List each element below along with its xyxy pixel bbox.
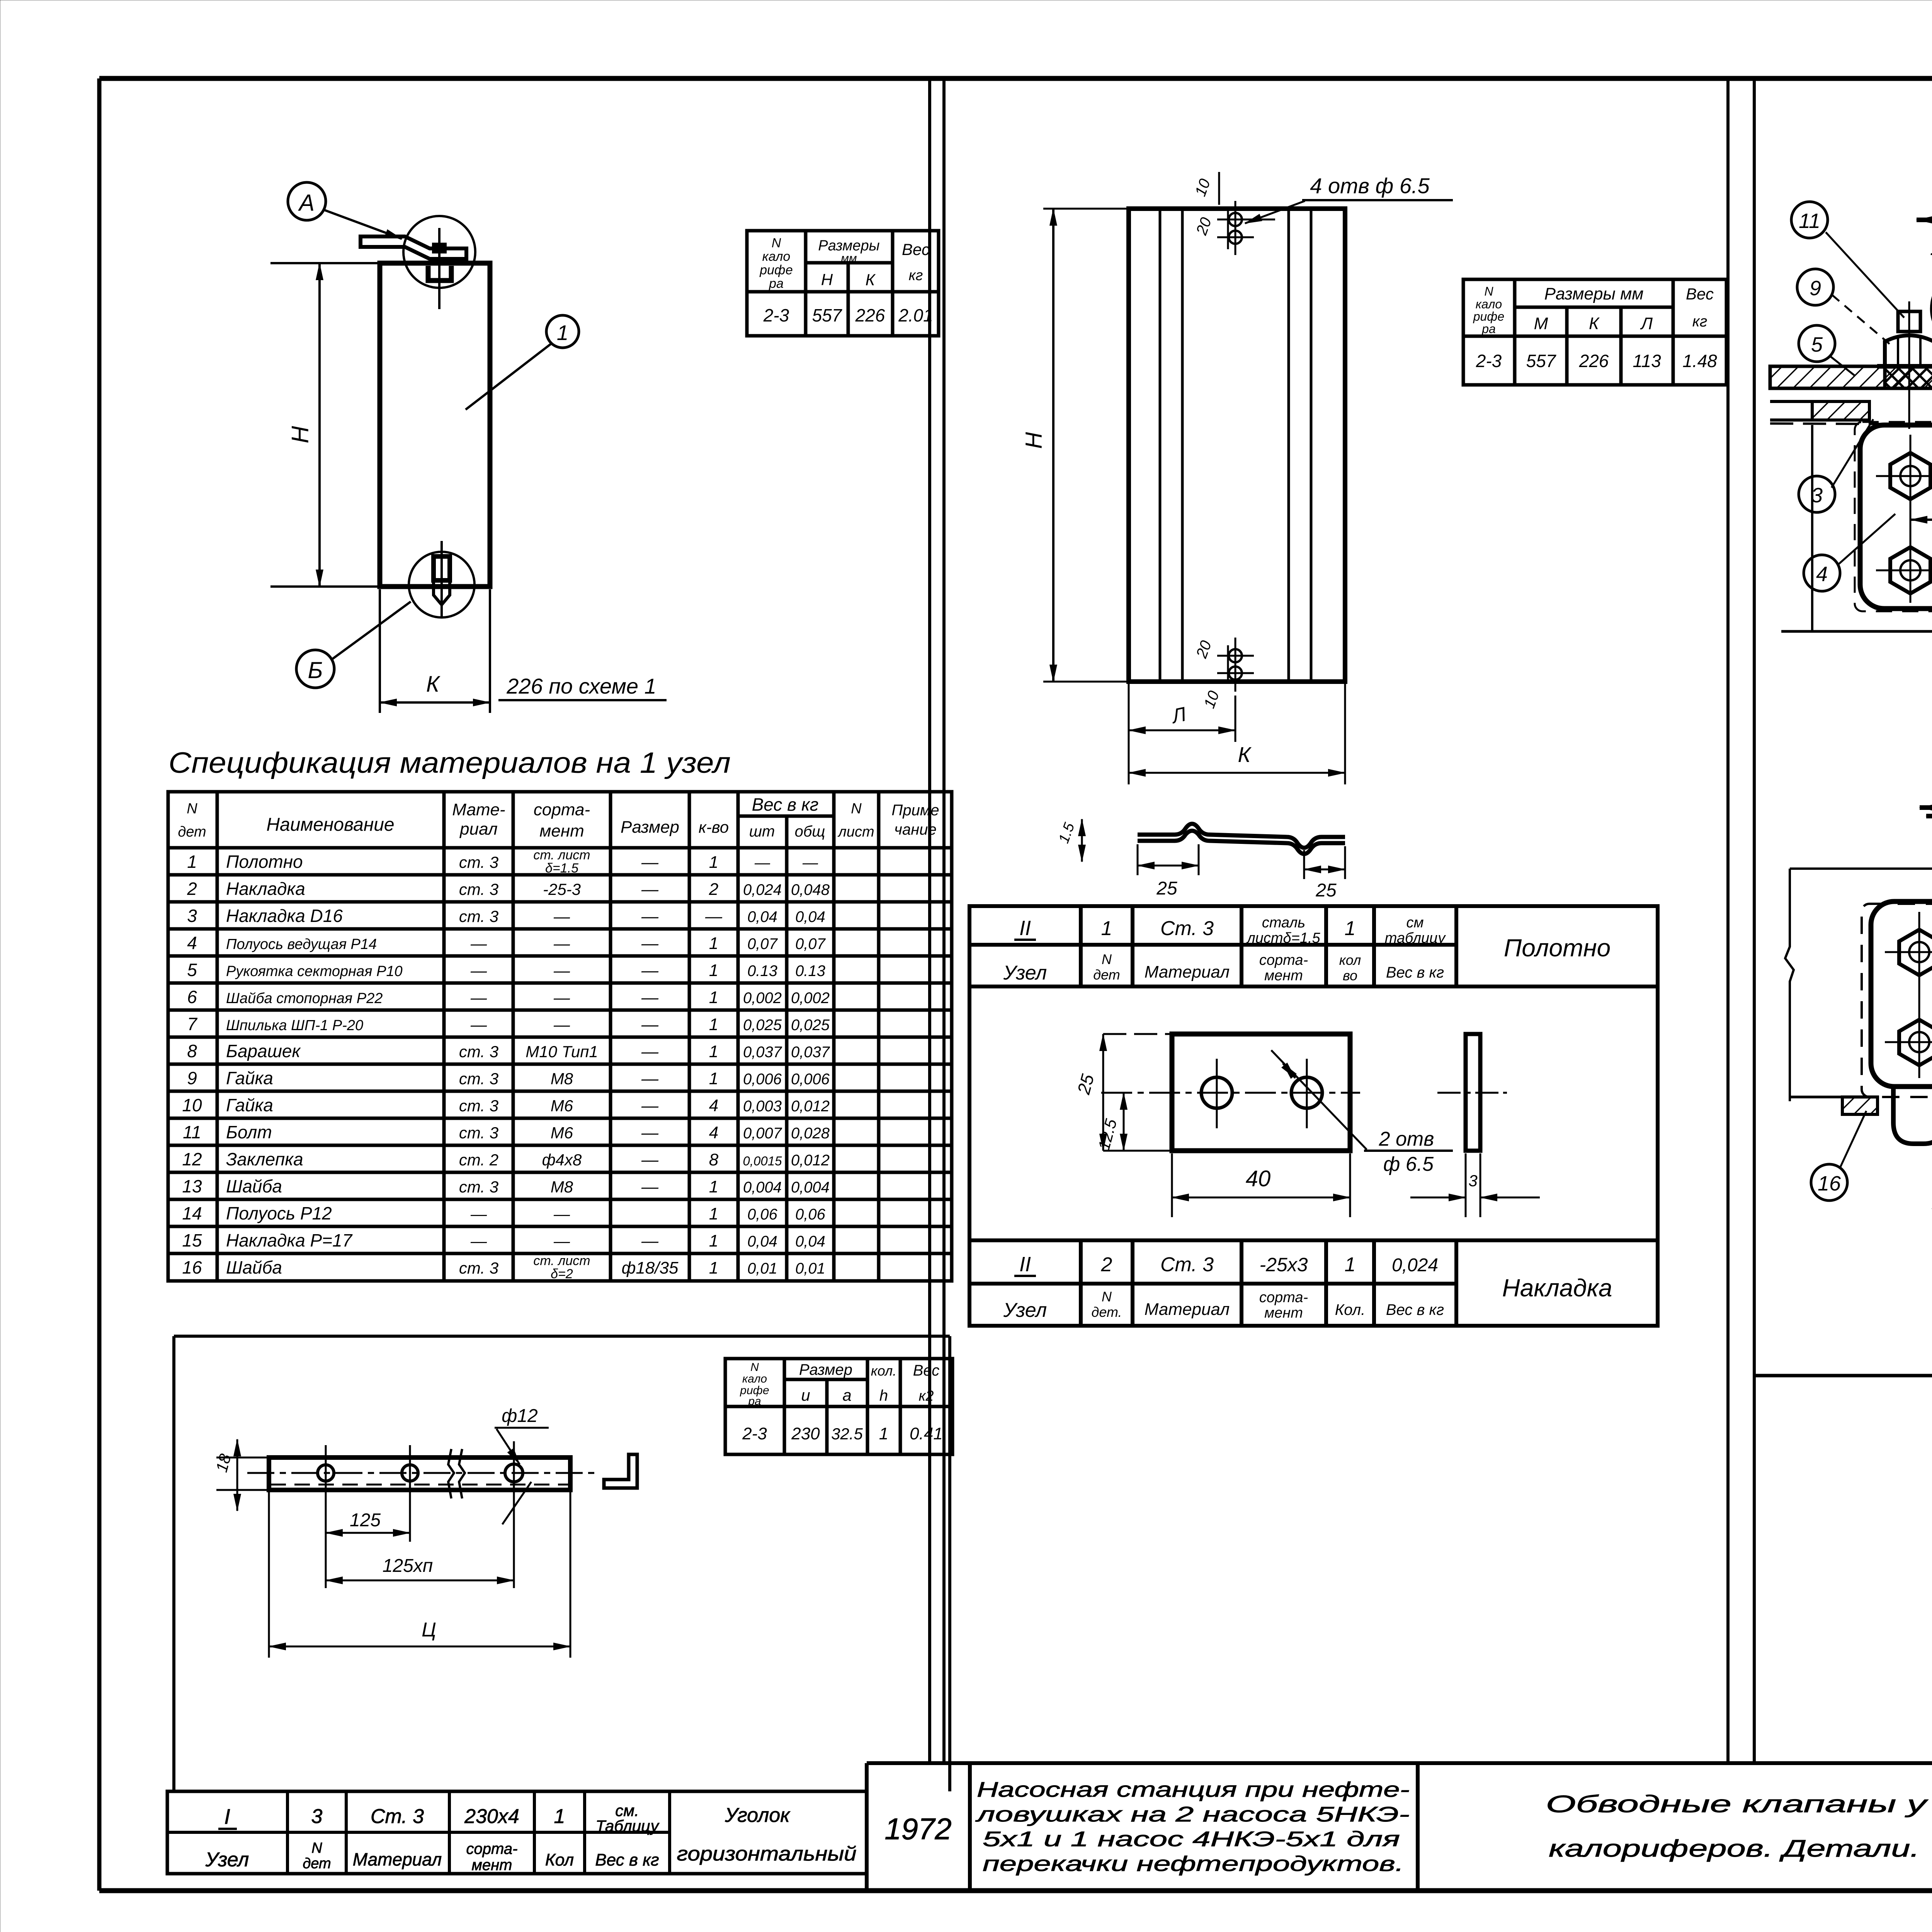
svg-text:Накладка: Накладка — [1502, 1274, 1612, 1302]
svg-text:Ц: Ц — [422, 1619, 436, 1641]
svg-text:0,012: 0,012 — [791, 1098, 830, 1115]
svg-text:0,037: 0,037 — [743, 1044, 782, 1061]
svg-text:см: см — [1406, 915, 1423, 931]
svg-text:ра: ра — [769, 276, 784, 291]
svg-text:кало: кало — [762, 249, 791, 264]
svg-text:0,04: 0,04 — [795, 1233, 825, 1250]
svg-text:5: 5 — [187, 960, 197, 980]
svg-text:8: 8 — [187, 1041, 197, 1061]
svg-text:1: 1 — [554, 1805, 565, 1828]
svg-text:10: 10 — [182, 1095, 202, 1115]
svg-text:М10 Тип1: М10 Тип1 — [526, 1043, 598, 1061]
svg-text:дет: дет — [303, 1855, 331, 1872]
svg-text:0,004: 0,004 — [743, 1179, 782, 1196]
svg-text:-25х3: -25х3 — [1259, 1254, 1308, 1276]
svg-text:ф12: ф12 — [502, 1406, 538, 1426]
svg-text:2: 2 — [1101, 1253, 1112, 1276]
svg-text:Накладка: Накладка — [226, 879, 305, 899]
svg-text:ст. 3: ст. 3 — [459, 907, 498, 925]
svg-text:2.01: 2.01 — [898, 305, 933, 325]
svg-text:к-во: к-во — [699, 818, 729, 836]
svg-text:Размеры: Размеры — [818, 238, 879, 254]
svg-text:-25-3: -25-3 — [543, 880, 581, 898]
svg-text:—: — — [470, 1232, 487, 1250]
svg-text:0,04: 0,04 — [747, 1233, 777, 1250]
svg-text:—: — — [641, 1150, 659, 1169]
svg-text:0,004: 0,004 — [791, 1179, 830, 1196]
svg-text:Заклепка: Заклепка — [226, 1149, 303, 1169]
svg-text:—: — — [641, 880, 659, 899]
svg-text:2-3: 2-3 — [742, 1424, 767, 1443]
svg-text:0,01: 0,01 — [795, 1260, 825, 1277]
svg-text:кол: кол — [1339, 952, 1361, 968]
svg-text:4 отв ф 6.5: 4 отв ф 6.5 — [1310, 173, 1430, 198]
svg-text:15: 15 — [182, 1230, 202, 1250]
svg-text:Спецификация материалов на: Спецификация материалов на 1 узел — [168, 747, 731, 779]
svg-text:Гайка: Гайка — [226, 1068, 273, 1088]
svg-text:0,048: 0,048 — [791, 881, 830, 898]
svg-text:шт: шт — [749, 823, 775, 840]
svg-text:мент: мент — [1264, 1305, 1303, 1321]
svg-text:6: 6 — [187, 987, 197, 1007]
svg-text:ст. лист: ст. лист — [533, 848, 590, 862]
svg-text:ст. 3: ст. 3 — [459, 853, 498, 871]
svg-text:0,037: 0,037 — [791, 1044, 830, 1061]
svg-text:Кол: Кол — [545, 1850, 574, 1869]
svg-text:Ст. 3: Ст. 3 — [1160, 1253, 1214, 1276]
svg-text:листδ=1.5: листδ=1.5 — [1246, 930, 1320, 946]
svg-text:Полуось ведущая Р14: Полуось ведущая Р14 — [226, 936, 377, 952]
svg-text:—: — — [802, 854, 818, 871]
svg-text:М6: М6 — [551, 1097, 573, 1115]
svg-text:δ=1.5: δ=1.5 — [545, 861, 578, 876]
svg-text:Вес в кг: Вес в кг — [595, 1850, 659, 1869]
svg-text:Н: Н — [287, 426, 314, 443]
svg-text:12.5: 12.5 — [1095, 1117, 1121, 1152]
svg-text:ст. 3: ст. 3 — [459, 1259, 498, 1277]
svg-text:N: N — [750, 1361, 759, 1374]
svg-text:лист: лист — [837, 824, 874, 840]
svg-text:—: — — [705, 907, 723, 926]
svg-text:Полуось Р12: Полуось Р12 — [226, 1203, 332, 1223]
svg-text:25: 25 — [1156, 878, 1177, 899]
svg-text:Н: Н — [1021, 432, 1047, 449]
svg-text:125: 125 — [350, 1510, 381, 1531]
svg-text:М6: М6 — [551, 1124, 573, 1142]
svg-text:Таблицу: Таблицу — [595, 1817, 660, 1835]
svg-text:4: 4 — [1816, 563, 1828, 586]
svg-text:40: 40 — [1246, 1166, 1271, 1191]
svg-text:Материал: Материал — [353, 1849, 442, 1869]
svg-text:дет: дет — [1093, 967, 1120, 983]
svg-text:сорта-: сорта- — [1259, 1289, 1308, 1306]
svg-text:Гайка: Гайка — [226, 1095, 273, 1115]
svg-text:2: 2 — [709, 880, 718, 899]
svg-text:Накладка D16: Накладка D16 — [226, 906, 343, 926]
svg-text:Вес в кг: Вес в кг — [1386, 1301, 1444, 1318]
svg-text:—: — — [641, 853, 659, 872]
svg-text:10: 10 — [1201, 689, 1223, 711]
svg-text:Шайба стопорная Р22: Шайба стопорная Р22 — [226, 990, 383, 1007]
svg-text:Размер: Размер — [621, 818, 679, 837]
svg-text:ст. 3: ст. 3 — [459, 1070, 498, 1088]
svg-text:К: К — [1589, 314, 1600, 333]
svg-text:2 отв: 2 отв — [1379, 1128, 1434, 1150]
svg-text:1: 1 — [709, 1231, 718, 1250]
svg-text:113: 113 — [1633, 351, 1661, 371]
svg-text:20: 20 — [1193, 215, 1215, 238]
svg-text:Узел: Узел — [1003, 1299, 1047, 1321]
svg-text:1: 1 — [709, 961, 718, 980]
svg-text:—: — — [641, 1177, 659, 1196]
svg-text:Материал: Материал — [1145, 1300, 1230, 1319]
svg-text:дет.: дет. — [1091, 1304, 1122, 1320]
svg-text:—: — — [641, 1096, 659, 1115]
svg-text:0,025: 0,025 — [743, 1017, 782, 1034]
svg-text:1: 1 — [709, 1259, 718, 1277]
svg-text:К: К — [1238, 742, 1252, 767]
svg-text:8: 8 — [709, 1150, 719, 1169]
svg-text:—: — — [641, 907, 659, 926]
svg-text:К: К — [426, 672, 440, 697]
svg-text:230: 230 — [791, 1424, 820, 1443]
svg-text:125хп: 125хп — [383, 1556, 433, 1576]
svg-text:14: 14 — [182, 1203, 202, 1223]
svg-text:0,04: 0,04 — [795, 908, 825, 925]
svg-text:перекачки нефтепродуктов.: перекачки нефтепродуктов. — [983, 1852, 1404, 1876]
svg-text:Насосная станция при нефте-: Насосная станция при нефте- — [977, 1777, 1410, 1801]
svg-text:А: А — [298, 190, 315, 216]
svg-text:кг: кг — [1692, 313, 1708, 330]
svg-text:16: 16 — [1818, 1172, 1841, 1195]
svg-text:ст. 3: ст. 3 — [459, 1124, 498, 1142]
svg-text:9: 9 — [187, 1068, 197, 1088]
svg-text:—: — — [641, 1042, 659, 1061]
svg-text:Л: Л — [1169, 703, 1188, 728]
svg-text:ст. 3: ст. 3 — [459, 1043, 498, 1061]
svg-text:0,007: 0,007 — [743, 1125, 782, 1142]
svg-text:557: 557 — [812, 305, 842, 325]
svg-text:1.48: 1.48 — [1682, 351, 1717, 371]
svg-text:кол.: кол. — [871, 1363, 897, 1379]
svg-text:ст. 3: ст. 3 — [459, 1178, 498, 1196]
svg-text:сталь: сталь — [1262, 915, 1305, 931]
svg-text:—: — — [553, 1205, 570, 1223]
svg-text:ф 6.5: ф 6.5 — [1383, 1153, 1434, 1175]
svg-text:ст. лист: ст. лист — [533, 1253, 590, 1268]
svg-text:II: II — [1019, 1253, 1031, 1276]
svg-text:II: II — [1019, 917, 1031, 940]
svg-text:Полотно: Полотно — [1504, 934, 1611, 962]
svg-text:0,0015: 0,0015 — [743, 1154, 782, 1168]
svg-text:—: — — [553, 934, 570, 952]
svg-text:Барашек: Барашек — [226, 1041, 301, 1061]
svg-text:—: — — [553, 1015, 570, 1034]
svg-text:мент: мент — [472, 1857, 512, 1874]
svg-text:4: 4 — [709, 1123, 718, 1142]
svg-text:9: 9 — [1810, 277, 1821, 300]
svg-text:230х4: 230х4 — [464, 1805, 519, 1828]
svg-text:рифе: рифе — [1473, 310, 1504, 323]
svg-text:Мате-: Мате- — [452, 800, 505, 819]
svg-text:1972: 1972 — [884, 1812, 952, 1846]
svg-text:Размеры мм: Размеры мм — [1544, 284, 1644, 303]
svg-text:К: К — [866, 270, 876, 289]
svg-text:М8: М8 — [551, 1178, 573, 1196]
svg-text:ф4х8: ф4х8 — [542, 1151, 582, 1169]
svg-text:0,003: 0,003 — [743, 1098, 782, 1115]
svg-text:0,07: 0,07 — [747, 935, 778, 952]
svg-text:Рукоятка секторная Р10: Рукоятка секторная Р10 — [226, 963, 403, 980]
svg-text:3: 3 — [311, 1805, 323, 1828]
svg-text:5х1 и 1 насос 4НКЭ-5х1 для: 5х1 и 1 насос 4НКЭ-5х1 для — [983, 1827, 1400, 1851]
svg-text:226: 226 — [1579, 351, 1609, 371]
svg-text:226 по схеме 1: 226 по схеме 1 — [506, 674, 656, 698]
svg-text:ловушках на 2 насоса 5НКЭ-: ловушках на 2 насоса 5НКЭ- — [975, 1802, 1410, 1826]
svg-text:Узел: Узел — [205, 1849, 249, 1871]
svg-text:0,002: 0,002 — [743, 990, 782, 1007]
svg-text:—: — — [470, 988, 487, 1007]
svg-text:Обводные клапаны у: Обводные клапаны у — [1546, 1791, 1929, 1818]
svg-text:—: — — [553, 907, 570, 925]
svg-text:Ст. 3: Ст. 3 — [371, 1805, 424, 1828]
svg-text:32.5: 32.5 — [831, 1425, 863, 1443]
svg-text:0,07: 0,07 — [795, 935, 826, 952]
svg-text:N: N — [187, 801, 197, 817]
svg-text:Материал: Материал — [1145, 963, 1230, 981]
svg-text:риал: риал — [459, 820, 498, 838]
svg-text:5: 5 — [1811, 333, 1823, 356]
svg-text:Размер: Размер — [799, 1361, 852, 1378]
svg-text:0.41: 0.41 — [910, 1424, 943, 1443]
svg-text:М: М — [1534, 314, 1548, 333]
svg-text:3: 3 — [187, 906, 197, 926]
svg-text:20: 20 — [1193, 638, 1215, 661]
svg-text:кг: кг — [909, 267, 923, 284]
svg-text:Вес: Вес — [902, 240, 930, 259]
svg-text:ра: ра — [748, 1395, 761, 1408]
svg-text:Приме: Приме — [891, 802, 939, 819]
svg-text:1: 1 — [1345, 917, 1356, 940]
svg-text:Болт: Болт — [226, 1122, 272, 1142]
svg-text:0,006: 0,006 — [743, 1071, 782, 1088]
svg-text:1: 1 — [879, 1424, 888, 1443]
svg-text:0,04: 0,04 — [747, 908, 777, 925]
svg-text:N: N — [772, 236, 781, 250]
svg-text:Наименование: Наименование — [266, 815, 394, 835]
svg-text:7: 7 — [187, 1014, 197, 1034]
svg-text:1: 1 — [187, 852, 197, 872]
svg-text:4: 4 — [709, 1096, 718, 1115]
svg-text:Н: Н — [821, 270, 833, 289]
svg-text:16: 16 — [182, 1257, 202, 1277]
svg-text:3: 3 — [1468, 1172, 1477, 1190]
svg-text:Ст. 3: Ст. 3 — [1160, 917, 1214, 940]
svg-text:чание: чание — [894, 821, 936, 838]
svg-text:—: — — [641, 934, 659, 953]
svg-text:1.5: 1.5 — [1056, 820, 1078, 845]
svg-text:0,024: 0,024 — [1392, 1255, 1438, 1276]
svg-text:—: — — [470, 934, 487, 952]
svg-text:М8: М8 — [551, 1070, 573, 1088]
svg-text:—: — — [641, 1123, 659, 1142]
svg-text:Б: Б — [308, 657, 323, 683]
svg-text:—: — — [641, 961, 659, 980]
svg-text:а: а — [842, 1386, 851, 1404]
svg-text:калориферов. Детали.: калориферов. Детали. — [1549, 1835, 1920, 1862]
svg-text:δ=2: δ=2 — [551, 1267, 573, 1281]
svg-text:557: 557 — [1526, 351, 1556, 371]
svg-text:Шпилька ШП-1 Р-20: Шпилька ШП-1 Р-20 — [226, 1017, 363, 1034]
svg-text:4: 4 — [187, 933, 197, 953]
svg-text:0.13: 0.13 — [795, 963, 825, 980]
svg-text:сорта-: сорта- — [534, 800, 590, 819]
svg-text:0.13: 0.13 — [747, 963, 777, 980]
svg-text:—: — — [754, 854, 770, 871]
svg-text:мент: мент — [1264, 968, 1303, 984]
svg-text:h: h — [879, 1387, 888, 1404]
svg-text:10: 10 — [1192, 177, 1214, 199]
svg-text:—: — — [641, 1069, 659, 1088]
svg-text:—: — — [470, 961, 487, 980]
svg-text:1: 1 — [709, 853, 718, 872]
svg-text:226: 226 — [855, 305, 885, 325]
svg-text:0,024: 0,024 — [743, 881, 782, 898]
svg-text:1: 1 — [709, 934, 718, 953]
svg-text:общ: общ — [795, 823, 825, 840]
svg-text:N: N — [1102, 1289, 1112, 1304]
svg-text:Накладка Р=17: Накладка Р=17 — [226, 1230, 353, 1250]
svg-text:1: 1 — [557, 321, 569, 345]
svg-text:N: N — [311, 1840, 322, 1856]
svg-text:0,002: 0,002 — [791, 990, 830, 1007]
svg-text:N: N — [1484, 284, 1493, 298]
svg-text:Л: Л — [1640, 314, 1653, 333]
svg-text:1: 1 — [709, 1177, 718, 1196]
svg-text:—: — — [470, 1015, 487, 1034]
svg-text:1: 1 — [709, 988, 718, 1007]
svg-text:—: — — [553, 1232, 570, 1250]
svg-text:сорта-: сорта- — [466, 1840, 518, 1857]
svg-text:ра: ра — [1481, 322, 1496, 336]
svg-text:N: N — [1102, 951, 1112, 967]
svg-text:1: 1 — [1101, 917, 1112, 940]
svg-text:1: 1 — [709, 1015, 718, 1034]
svg-text:мент: мент — [539, 821, 584, 840]
svg-text:рифе: рифе — [759, 263, 793, 277]
svg-text:во: во — [1343, 968, 1357, 983]
svg-text:—: — — [641, 1231, 659, 1250]
svg-text:25: 25 — [1073, 1072, 1098, 1097]
svg-text:0,06: 0,06 — [795, 1206, 826, 1223]
svg-text:кало: кало — [742, 1372, 767, 1385]
svg-text:к2: к2 — [918, 1388, 934, 1404]
svg-text:—: — — [553, 988, 570, 1007]
svg-text:Шайба: Шайба — [226, 1176, 282, 1196]
svg-text:ст. 3: ст. 3 — [459, 880, 498, 898]
svg-text:I: I — [224, 1804, 230, 1828]
svg-text:—: — — [470, 1205, 487, 1223]
svg-text:—: — — [641, 1015, 659, 1034]
svg-text:1: 1 — [709, 1042, 718, 1061]
svg-text:11: 11 — [183, 1122, 201, 1142]
svg-text:дет: дет — [178, 824, 206, 840]
svg-text:Шайба: Шайба — [226, 1257, 282, 1277]
svg-text:Вес в кг: Вес в кг — [752, 794, 819, 815]
svg-text:ст. 3: ст. 3 — [459, 1097, 498, 1115]
svg-text:кало: кало — [1476, 297, 1502, 311]
svg-text:2: 2 — [187, 879, 197, 899]
svg-text:мм: мм — [841, 252, 857, 265]
svg-text:12: 12 — [182, 1149, 202, 1169]
svg-text:1: 1 — [709, 1069, 718, 1088]
svg-text:—: — — [641, 988, 659, 1007]
svg-text:Узел: Узел — [1003, 962, 1047, 984]
svg-text:0,028: 0,028 — [791, 1125, 830, 1142]
svg-text:ст. 2: ст. 2 — [459, 1151, 498, 1169]
svg-text:Кол.: Кол. — [1335, 1301, 1366, 1318]
svg-text:11: 11 — [1799, 209, 1820, 233]
svg-text:0,025: 0,025 — [791, 1017, 830, 1034]
svg-text:ф18/35: ф18/35 — [622, 1259, 679, 1277]
svg-text:сорта-: сорта- — [1259, 952, 1308, 968]
svg-text:горизонтальный: горизонтальный — [677, 1843, 857, 1865]
svg-text:1: 1 — [1930, 234, 1932, 260]
svg-text:Уголок: Уголок — [724, 1804, 791, 1827]
svg-text:18: 18 — [212, 1452, 235, 1474]
svg-text:2-3: 2-3 — [1476, 351, 1502, 371]
svg-text:2-3: 2-3 — [763, 305, 789, 325]
svg-text:Полотно: Полотно — [226, 852, 303, 872]
svg-text:таблицу: таблицу — [1385, 930, 1446, 946]
svg-text:Вес: Вес — [913, 1362, 939, 1379]
svg-text:25: 25 — [1315, 880, 1337, 901]
svg-text:и: и — [801, 1386, 810, 1404]
svg-text:—: — — [553, 961, 570, 980]
svg-text:13: 13 — [182, 1176, 202, 1196]
svg-text:1: 1 — [1345, 1253, 1356, 1276]
svg-text:N: N — [851, 801, 862, 817]
svg-text:1: 1 — [709, 1204, 718, 1223]
svg-text:0,012: 0,012 — [791, 1152, 830, 1169]
svg-text:0,06: 0,06 — [747, 1206, 778, 1223]
svg-text:Вес в кг: Вес в кг — [1386, 964, 1444, 981]
svg-text:0,01: 0,01 — [747, 1260, 777, 1277]
svg-text:0,006: 0,006 — [791, 1071, 830, 1088]
svg-text:Вес: Вес — [1686, 285, 1714, 303]
